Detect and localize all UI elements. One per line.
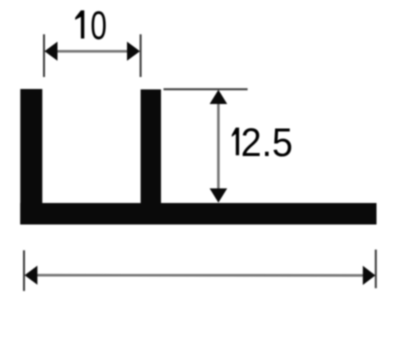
bottom dim right extension line: [375, 250, 377, 289]
profile right leg: [141, 89, 161, 203]
bottom dim dimension line: [35, 274, 365, 277]
svg-text:2.5: 2.5: [241, 121, 293, 165]
dim12.5 dimension line: [217, 100, 220, 192]
dim10 dimension line: [55, 50, 130, 53]
profile base: [20, 203, 376, 225]
dim10 right extension line: [140, 34, 142, 77]
dim12.5 top extension line: [164, 88, 248, 90]
svg-text:0: 0: [90, 4, 107, 48]
dim10 left extension line: [43, 34, 45, 77]
dim10 left arrowhead: [45, 42, 58, 61]
profile left leg: [20, 89, 42, 225]
bottom dim left arrowhead: [25, 266, 38, 285]
bottom dim right arrowhead: [363, 266, 376, 285]
dim10 label "10" digit 1: [75, 10, 84, 38]
dim12.5 top arrowhead: [210, 90, 228, 104]
bottom dim left extension line: [23, 250, 25, 291]
dim10 right arrowhead: [127, 42, 140, 61]
dim12.5 label digit 1: [232, 128, 239, 156]
dim12.5 bottom arrowhead: [210, 188, 228, 202]
